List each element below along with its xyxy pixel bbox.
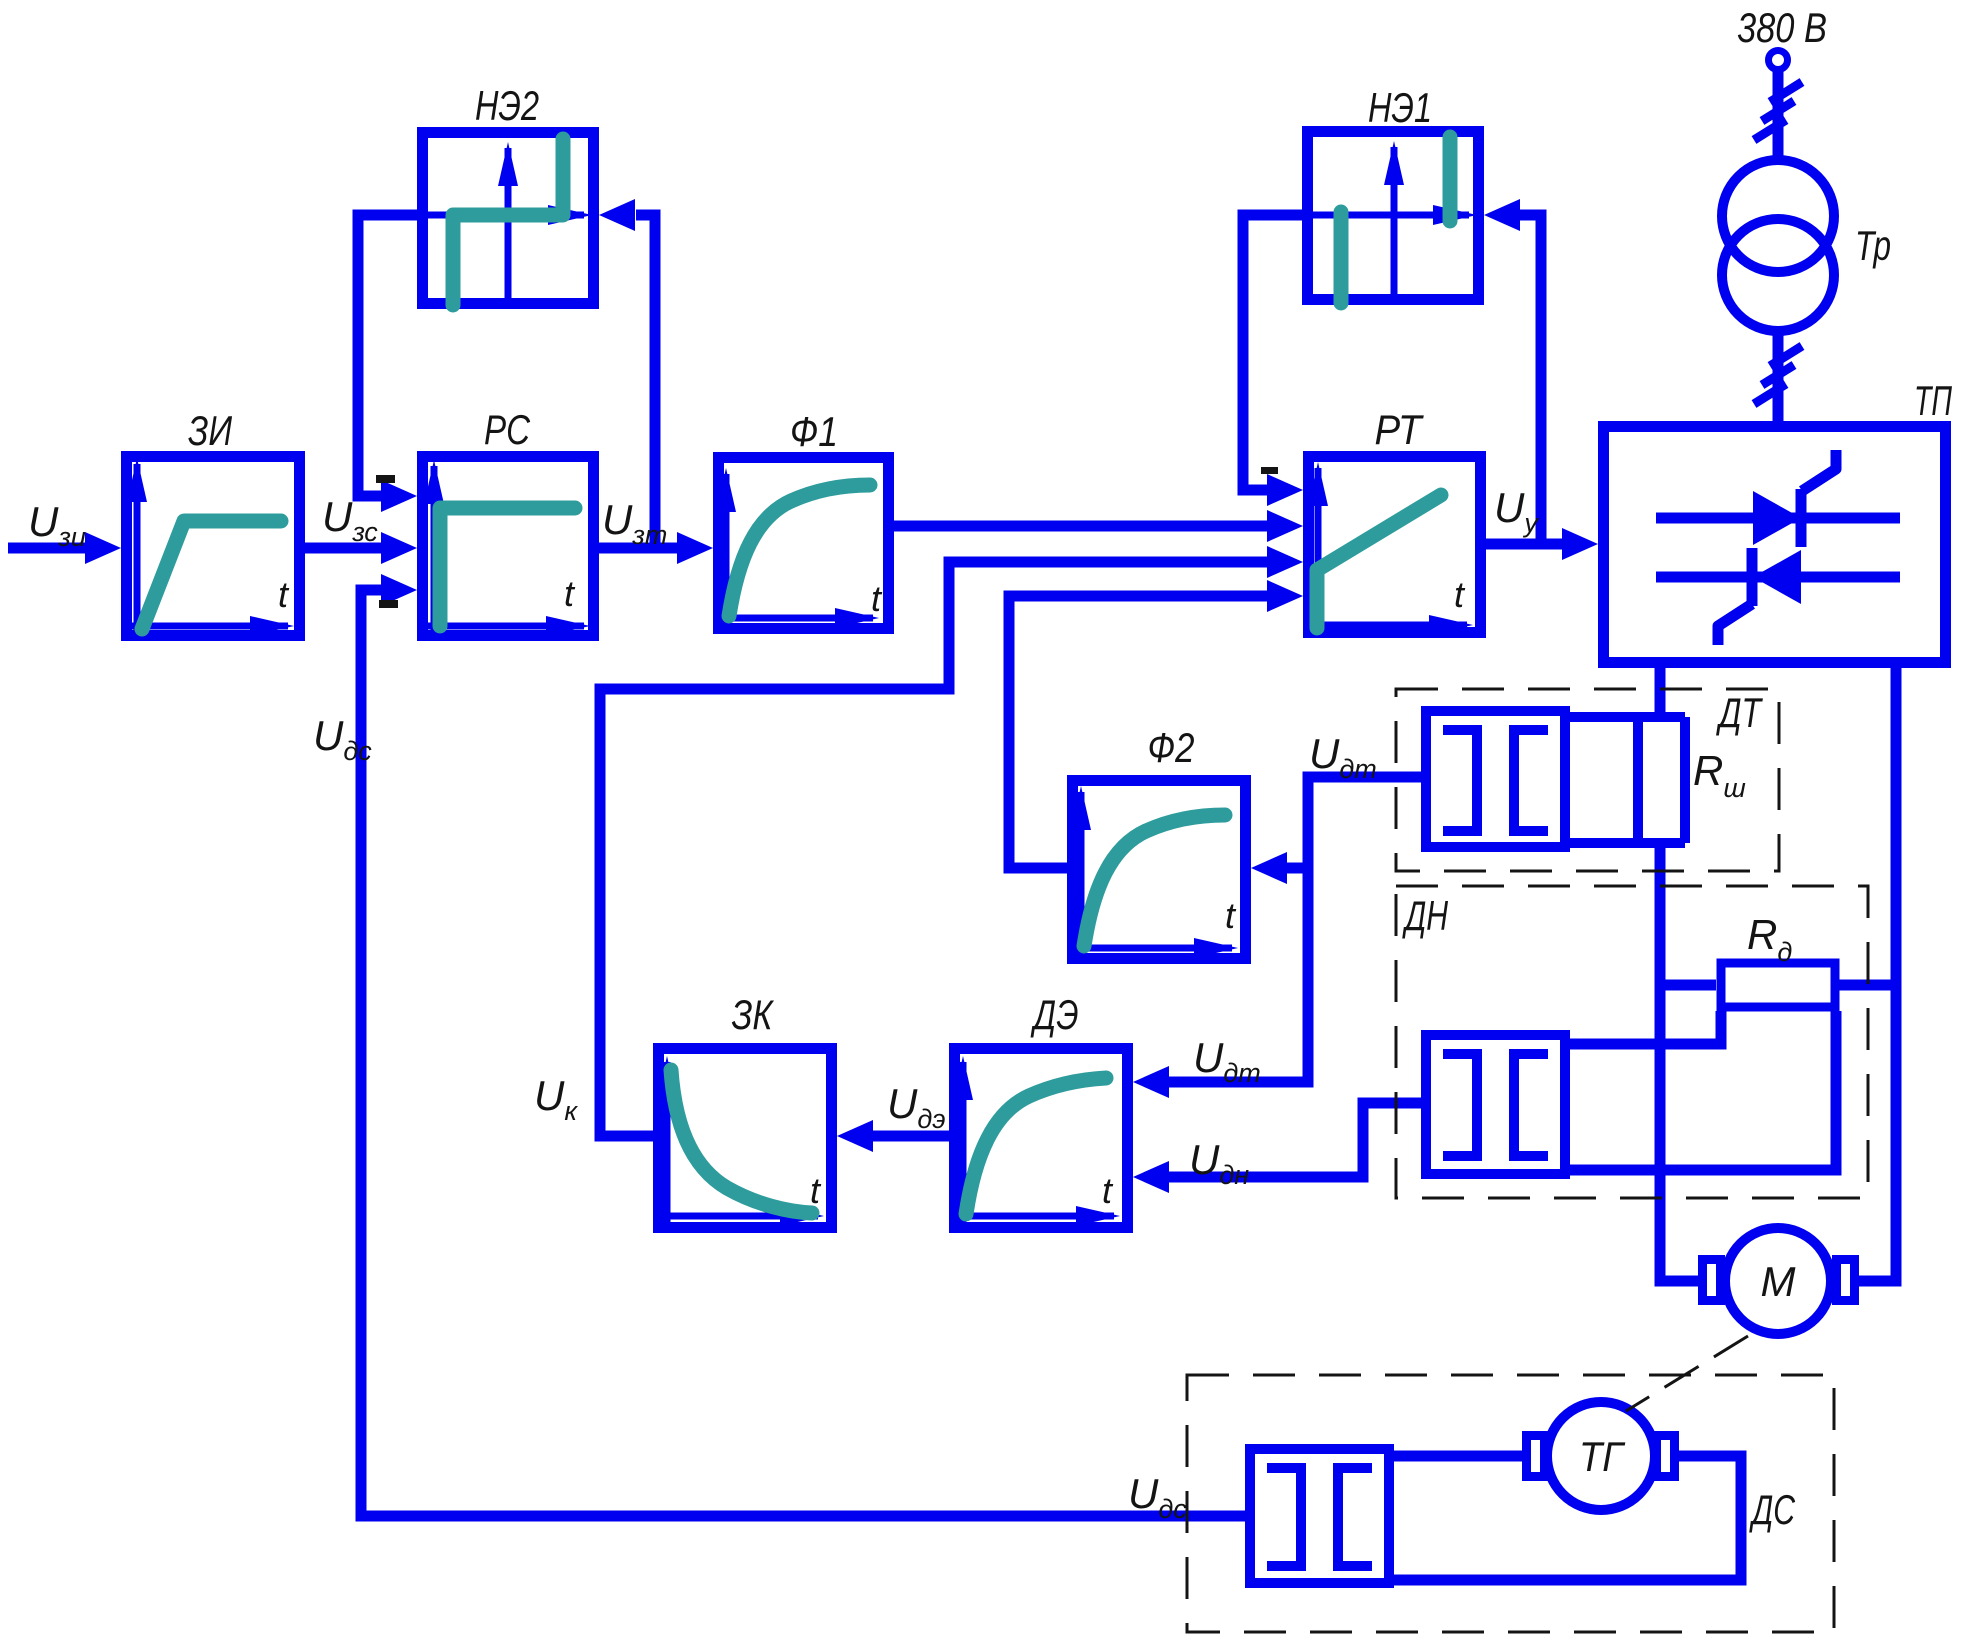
svg-text:ТГ: ТГ (1579, 1433, 1626, 1480)
svg-text:РТ: РТ (1375, 406, 1425, 453)
svg-text:ЗК: ЗК (732, 991, 775, 1038)
svg-text:Ф1: Ф1 (790, 408, 838, 455)
svg-text:ДТ: ДТ (1716, 689, 1764, 736)
svg-text:380 В: 380 В (1737, 4, 1827, 51)
svg-text:РС: РС (484, 406, 531, 453)
svg-text:М: М (1761, 1258, 1796, 1305)
svg-text:ЗИ: ЗИ (188, 407, 233, 454)
svg-text:Ф2: Ф2 (1148, 724, 1195, 771)
svg-text:ДС: ДС (1749, 1486, 1795, 1533)
svg-text:ДН: ДН (1402, 892, 1448, 939)
svg-text:НЭ2: НЭ2 (475, 82, 539, 129)
svg-text:НЭ1: НЭ1 (1368, 84, 1432, 131)
svg-text:Тр: Тр (1855, 222, 1891, 269)
svg-text:ДЭ: ДЭ (1030, 991, 1078, 1038)
svg-text:ТП: ТП (1914, 377, 1952, 424)
